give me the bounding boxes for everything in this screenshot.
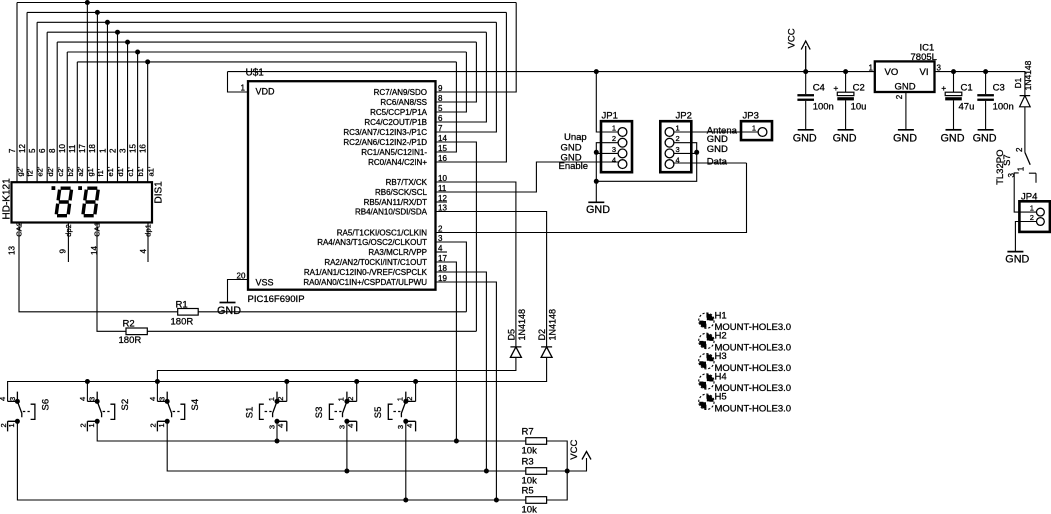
svg-text:1: 1 (267, 397, 276, 401)
svg-text:D2: D2 (537, 329, 547, 341)
svg-text:1: 1 (98, 148, 107, 153)
svg-text:C4: C4 (813, 83, 825, 94)
svg-text:e2': e2' (36, 166, 45, 176)
wire bus seg1 (display segment net) (17, 3, 516, 183)
svg-text:GND: GND (217, 305, 241, 317)
wire JP2 Data pin4 (674, 162, 747, 164)
svg-text:JP3: JP3 (743, 111, 759, 122)
svg-text:JP2: JP2 (676, 111, 692, 122)
svg-text:1: 1 (87, 423, 96, 427)
svg-text:180R: 180R (119, 335, 142, 346)
wire GND bar JP1 (588, 201, 604, 203)
wire C3 top wire (985, 72, 987, 95)
svg-text:f1': f1' (96, 168, 105, 176)
wire pin loop y102 (436, 42, 477, 102)
voltage regulator IC1 7805L (875, 61, 935, 92)
wire GND bar C1 (946, 129, 962, 131)
svg-text:C1: C1 (961, 83, 973, 94)
wire pin10 RB7 to D5 (436, 182, 516, 347)
svg-text:RC0/AN4/C2IN+: RC0/AN4/C2IN+ (368, 158, 427, 167)
svg-text:RA1/AN1/C12IN0-/VREF/CSPCLK: RA1/AN1/C12IN0-/VREF/CSPCLK (304, 268, 428, 277)
svg-text:1: 1 (337, 397, 346, 401)
connector JP1 (601, 121, 632, 172)
wire pin17 RA2 to rail (436, 262, 457, 441)
wire S4 pin1 to R3 rail (167, 421, 526, 471)
svg-text:VDD: VDD (256, 87, 276, 97)
svg-text:10k: 10k (522, 446, 538, 457)
wire GND bar C4 (798, 129, 814, 131)
svg-text:g1': g1' (86, 166, 95, 176)
svg-text:15: 15 (128, 144, 137, 153)
wire D1 to S7 (1024, 107, 1026, 153)
wire pin loop y122 (436, 32, 487, 122)
svg-text:17: 17 (78, 144, 87, 153)
wire CA2 to R1 to RA4 (19, 222, 466, 311)
svg-text:RC5/CCP1/P1A: RC5/CCP1/P1A (370, 108, 428, 117)
wire D2 bottom to railB (8, 357, 547, 401)
svg-text:RA2/AN2/T0CKI/INT/C1OUT: RA2/AN2/T0CKI/INT/C1OUT (324, 258, 427, 267)
wire pin4 stub (NC) (436, 251, 447, 253)
wire pin loop y132 (436, 22, 497, 132)
wire R7 right chain (547, 441, 568, 500)
svg-text:GND: GND (941, 132, 965, 144)
svg-text:RC6/AN8/SS: RC6/AN8/SS (380, 98, 427, 107)
svg-text:10u: 10u (851, 102, 867, 113)
svg-text:a1': a1' (146, 166, 155, 176)
svg-text:RA0/AN0/C1IN+/CSPDAT/ULPWU: RA0/AN0/C1IN+/CSPDAT/ULPWU (303, 278, 427, 287)
svg-text:4: 4 (148, 397, 157, 401)
svg-text:11: 11 (68, 144, 77, 153)
svg-text:VCC: VCC (569, 440, 580, 460)
svg-text:GND: GND (893, 132, 917, 144)
svg-text:RB7/TX/CK: RB7/TX/CK (386, 178, 428, 187)
svg-text:3: 3 (337, 425, 346, 429)
svg-text:3: 3 (612, 145, 616, 154)
svg-text:1: 1 (1030, 204, 1034, 213)
wire GND bar C2 (838, 129, 854, 131)
svg-text:GND: GND (833, 132, 857, 144)
svg-text:7805L: 7805L (911, 52, 937, 63)
wire S3 pin3 down (346, 421, 348, 471)
svg-text:10k: 10k (522, 505, 538, 514)
wire display dp1 stub (147, 222, 149, 262)
diode D1 1N4148 (1020, 96, 1031, 107)
svg-text:10: 10 (58, 144, 67, 153)
mount hole H4 MOUNT-HOLE3.0 (699, 374, 714, 389)
svg-text:4: 4 (276, 424, 285, 428)
wire pin3 RA4 to R1 net (436, 242, 467, 312)
wire pin15 stub wire (436, 151, 457, 153)
svg-text:1: 1 (752, 124, 756, 133)
svg-text:13: 13 (8, 246, 17, 255)
connector JP3 (741, 121, 772, 140)
op IC U$1 PIC16F690IP box (248, 81, 436, 290)
svg-text:RA3/MCLR/VPP: RA3/MCLR/VPP (368, 248, 427, 257)
VCC symbol bottom (582, 452, 591, 460)
wire C2 bottom wire (845, 100, 847, 129)
svg-text:3: 3 (267, 425, 276, 429)
svg-text:4: 4 (78, 397, 87, 401)
wire C3 bottom wire (985, 101, 987, 130)
svg-text:4: 4 (612, 156, 616, 165)
svg-text:47u: 47u (959, 102, 975, 113)
wire pin loop y112 (436, 52, 467, 112)
mount hole H3 MOUNT-HOLE3.0 (699, 354, 714, 369)
svg-text:8: 8 (48, 148, 57, 153)
svg-text:a2': a2' (76, 166, 85, 176)
wire S1 pin3 down (276, 421, 278, 441)
switch S3 (347, 392, 357, 432)
svg-text:b2': b2' (66, 166, 75, 176)
svg-text:14: 14 (90, 246, 99, 255)
svg-text:16: 16 (138, 144, 147, 153)
junction R5 rail junctions (403, 498, 499, 503)
svg-text:4: 4 (0, 397, 7, 401)
wire pin14 to R2 net (436, 142, 477, 331)
svg-text:PIC16F690IP: PIC16F690IP (248, 294, 305, 305)
svg-text:S2: S2 (120, 399, 131, 411)
wire bus seg7 (display segment net) (77, 62, 456, 182)
wire pin12 stub (NC) (436, 201, 447, 203)
wire C4 top wire (805, 72, 807, 95)
wire bus seg3 (display segment net) (37, 22, 496, 182)
svg-text:100n: 100n (813, 102, 834, 113)
wire S6 pin1 to R5 rail (17, 421, 525, 500)
svg-text:S7: S7 (1002, 154, 1013, 166)
svg-text:17: 17 (438, 254, 447, 263)
svg-text:100n: 100n (993, 102, 1014, 113)
svg-text:e1': e1' (106, 166, 115, 176)
wire pin2 RA5 to Data (436, 163, 747, 233)
junction VI junctions (951, 69, 988, 74)
wire S5 pin2 up (415, 382, 417, 402)
wire pin loop y92 (436, 3, 516, 93)
svg-text:R2: R2 (123, 319, 135, 330)
svg-text:1: 1 (676, 124, 680, 133)
svg-text:S6: S6 (40, 399, 51, 411)
wire S5 pin3 down (405, 421, 407, 500)
svg-text:Data: Data (707, 156, 728, 167)
svg-text:S5: S5 (373, 407, 384, 419)
wire C1 top wire (953, 72, 955, 93)
diode D2 1N4148 (541, 347, 552, 358)
svg-text:18: 18 (88, 144, 97, 153)
svg-text:6: 6 (38, 148, 47, 153)
svg-text:H5: H5 (715, 392, 727, 403)
svg-text:GND: GND (895, 82, 916, 93)
wire S7 contact 3 (1014, 173, 1037, 212)
wire CA1 to R2 to RC2 (97, 222, 476, 331)
svg-text:RB5/AN11/RX/DT: RB5/AN11/RX/DT (364, 198, 428, 207)
svg-text:b1': b1' (136, 166, 145, 176)
wire JP1 GND pins (596, 143, 618, 203)
svg-text:1: 1 (396, 397, 405, 401)
wire VI line (935, 72, 1025, 96)
wire pin16 loop (436, 12, 507, 162)
wire VCC arrow stem (805, 46, 807, 72)
svg-text:H3: H3 (715, 351, 727, 362)
wire VCC main line (228, 71, 875, 73)
svg-text:GND: GND (793, 132, 817, 144)
svg-text:2: 2 (895, 94, 904, 99)
wire IC1 gnd pin2 (905, 92, 907, 130)
svg-text:H4: H4 (715, 371, 727, 382)
svg-text:4: 4 (139, 249, 148, 254)
connector JP2 (660, 121, 691, 172)
junction railB junctions (85, 379, 418, 384)
svg-text:MOUNT-HOLE3.0: MOUNT-HOLE3.0 (715, 403, 792, 414)
wire pin19 RA0 to rail (436, 282, 497, 500)
svg-text:9: 9 (58, 249, 67, 254)
svg-text:VSS: VSS (256, 278, 274, 288)
svg-text:RB6/SCK/SCL: RB6/SCK/SCL (375, 188, 428, 197)
wire VSS pin20 to GND (228, 280, 249, 303)
display digits 88 (56, 188, 71, 216)
wire VCC to JP1 pin1 (596, 72, 618, 132)
svg-text:2: 2 (612, 134, 616, 143)
junction R3 rail junctions (344, 469, 569, 474)
wire pin loop y152 (436, 62, 457, 152)
svg-text:+: + (941, 83, 946, 93)
junction switch lever junctions (15, 399, 408, 424)
svg-text:g2': g2' (16, 166, 25, 176)
wire pin11 RB6 Enable (436, 162, 619, 192)
svg-text:GND: GND (1005, 254, 1029, 266)
svg-text:GND: GND (586, 204, 610, 216)
svg-text:D5: D5 (506, 329, 516, 341)
svg-text:RC1/AN5/C12IN1-: RC1/AN5/C12IN1- (361, 148, 427, 157)
wire bus seg6 (display segment net) (67, 52, 466, 182)
wire S1 pin2 up (286, 382, 288, 402)
wire bus seg4 (display segment net) (47, 32, 486, 182)
wire GND bar VSS (220, 302, 236, 304)
svg-text:H1: H1 (715, 310, 727, 321)
svg-text:2: 2 (108, 148, 117, 153)
wire display dp2 stub (67, 222, 69, 262)
svg-text:VI: VI (920, 67, 929, 78)
wire S3 pin2 up (356, 382, 358, 402)
junction VCC line junctions (594, 69, 848, 74)
svg-text:+: + (833, 83, 838, 93)
svg-text:RC4/C2OUT/P1B: RC4/C2OUT/P1B (364, 118, 427, 127)
svg-text:RB4/AN10/SDI/SDA: RB4/AN10/SDI/SDA (355, 208, 428, 217)
svg-text:GND: GND (973, 132, 997, 144)
svg-text:3: 3 (1007, 173, 1016, 178)
mount hole H2 MOUNT-HOLE3.0 (699, 333, 714, 348)
svg-text:3: 3 (118, 148, 127, 153)
display DIS1 HD-K121 (12, 182, 153, 222)
svg-text:1N4148: 1N4148 (548, 309, 558, 341)
wire GND bar C3 (978, 129, 994, 131)
switch S1 (277, 392, 287, 432)
svg-text:1N4148: 1N4148 (517, 309, 527, 341)
svg-text:2: 2 (676, 134, 680, 143)
svg-text:HD-K121: HD-K121 (2, 178, 13, 220)
svg-text:3: 3 (676, 145, 680, 154)
wire Antena JP2 pin1 to JP3 (674, 131, 759, 133)
svg-text:1: 1 (7, 423, 16, 427)
svg-text:VO: VO (885, 67, 899, 78)
svg-text:18: 18 (438, 264, 447, 273)
wire JP2 GND pins (596, 143, 696, 182)
wire S2 pin4 up (86, 382, 88, 402)
svg-text:R1: R1 (176, 300, 188, 311)
wire bus seg2 (display segment net) (27, 12, 506, 182)
wire C2 top wire (845, 72, 847, 93)
wire S2 pin1 to R7 rail (97, 421, 526, 441)
svg-text:1: 1 (869, 64, 874, 73)
resistor R3 (526, 468, 547, 475)
svg-text:GND: GND (707, 144, 728, 155)
svg-text:DIS1: DIS1 (154, 181, 165, 204)
svg-text:S4: S4 (190, 399, 201, 411)
mount hole H5 MOUNT-HOLE3.0 (699, 394, 714, 409)
wire JP4 pin2 to GND (1015, 222, 1036, 252)
wire D5 bottom to railA (157, 357, 516, 401)
resistor R5 (526, 497, 547, 504)
svg-text:C3: C3 (993, 83, 1005, 94)
switch S6 (8, 392, 18, 432)
svg-text:3: 3 (396, 425, 405, 429)
svg-text:180R: 180R (171, 317, 194, 328)
svg-text:1: 1 (612, 124, 616, 133)
svg-text:1: 1 (241, 84, 246, 93)
junction R7 rail junctions (275, 439, 459, 444)
svg-text:R5: R5 (522, 486, 534, 497)
switch S4 (157, 392, 167, 432)
svg-text:C2: C2 (853, 83, 865, 94)
svg-text:S3: S3 (314, 407, 325, 419)
svg-text:RC3/AN7/C12IN3-/P1C: RC3/AN7/C12IN3-/P1C (343, 128, 427, 137)
switch S5 (406, 392, 416, 432)
svg-text:RA4/AN3/T1G/OSC2/CLKOUT: RA4/AN3/T1G/OSC2/CLKOUT (317, 238, 427, 247)
svg-text:RC2/AN6/C12IN2-/P1D: RC2/AN6/C12IN2-/P1D (343, 138, 427, 147)
switch S2 (87, 392, 97, 432)
wire pin13 RB4 to D2 (436, 212, 547, 347)
svg-text:GND: GND (561, 153, 582, 164)
svg-text:VCC: VCC (787, 28, 798, 48)
svg-text:1: 1 (157, 423, 166, 427)
svg-text:JP1: JP1 (602, 111, 618, 122)
wire R3 right to VCC (547, 458, 587, 471)
svg-text:RC7/AN9/SDO: RC7/AN9/SDO (374, 88, 427, 97)
svg-text:U$1: U$1 (246, 68, 265, 79)
svg-text:d1': d1' (116, 166, 125, 176)
svg-text:D1: D1 (1014, 77, 1023, 88)
wire S7 contact 1 (1029, 173, 1036, 183)
wire VDD pin1 to VCC (228, 72, 249, 92)
svg-text:4: 4 (405, 424, 414, 428)
svg-text:7: 7 (8, 148, 17, 153)
wire GND bar JP4 (1007, 251, 1023, 253)
resistor R7 (526, 438, 547, 445)
wire bus seg5 (display segment net) (57, 42, 476, 182)
svg-text:2: 2 (1030, 213, 1034, 222)
svg-text:R7: R7 (522, 427, 534, 438)
junction JP1 gnd junctions (594, 150, 599, 184)
svg-text:c2': c2' (56, 167, 65, 177)
svg-text:R3: R3 (522, 457, 534, 468)
svg-text:H2: H2 (715, 331, 727, 342)
svg-text:c1': c1' (126, 167, 135, 177)
svg-text:1N4148: 1N4148 (1023, 60, 1033, 90)
wire GND bar IC1 (898, 129, 914, 131)
svg-text:12: 12 (18, 144, 27, 153)
svg-text:d2': d2' (46, 166, 55, 176)
wire C4 bottom wire (805, 101, 807, 130)
wire C1 bottom wire (953, 100, 955, 129)
svg-text:1: 1 (1017, 166, 1026, 171)
svg-text:S1: S1 (244, 407, 255, 419)
svg-text:RA5/T1CKI/OSC1/CLKIN: RA5/T1CKI/OSC1/CLKIN (337, 229, 427, 238)
diode D5 1N4148 (510, 347, 521, 358)
mount hole H1 MOUNT-HOLE3.0 (699, 313, 714, 328)
svg-text:2: 2 (1015, 147, 1024, 152)
junction JP2 gnd junction (694, 150, 699, 155)
svg-text:19: 19 (438, 274, 447, 283)
svg-text:f2': f2' (26, 168, 35, 176)
wire pin18 RA1 to rail (436, 272, 487, 471)
svg-text:4: 4 (346, 424, 355, 428)
junction display bus junctions (85, 0, 150, 64)
connector JP4 (1019, 201, 1050, 232)
svg-text:5: 5 (28, 148, 37, 153)
